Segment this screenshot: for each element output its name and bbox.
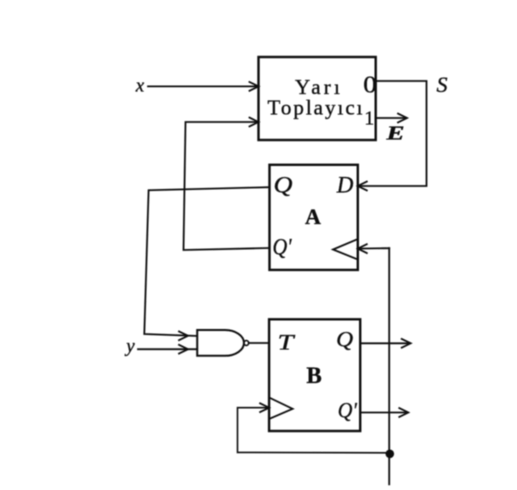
flip-flop B box: [269, 319, 360, 431]
wire NAND output to T input of B: [249, 342, 269, 344]
svg-text:A: A: [305, 204, 321, 229]
svg-text:T: T: [278, 330, 296, 355]
NAND gate G1: [197, 330, 249, 356]
svg-text:Toplayıcı: Toplayıcı: [267, 96, 364, 120]
svg-text:Q': Q': [273, 235, 293, 260]
arrowhead into NAND bottom input: [179, 345, 188, 354]
wire S: half adder output 0 down to D input: [358, 81, 427, 186]
wire x to half adder: [148, 85, 259, 87]
svg-text:0: 0: [363, 73, 377, 99]
arrowhead into half adder top input: [250, 82, 259, 91]
svg-text:B: B: [306, 363, 321, 388]
feedback wire to flip-flop B clock: [238, 408, 390, 453]
svg-text:E: E: [385, 123, 404, 145]
clock triangle of flip-flop B: [269, 398, 293, 420]
wire Q' output of B: [360, 412, 406, 414]
svg-text:Q: Q: [336, 327, 353, 352]
arrowhead into NAND top input: [179, 331, 188, 340]
wire Q of A to NAND input: [144, 187, 269, 336]
junction dot: [386, 450, 395, 459]
wire y to NAND input: [138, 348, 197, 350]
svg-text:y: y: [124, 336, 135, 357]
clock triangle of flip-flop A: [333, 239, 358, 260]
arrowhead into A clock: [358, 244, 367, 253]
half adder box U1 "Yarı Toplayıcı": [259, 57, 376, 140]
arrowhead into half adder lower input: [250, 118, 259, 127]
wire clock to flip-flop A: [358, 247, 389, 249]
svg-text:D: D: [336, 173, 354, 198]
svg-text:Q': Q': [338, 398, 357, 423]
wire E: half adder output 1: [376, 117, 405, 119]
svg-text:Q: Q: [274, 173, 293, 198]
svg-text:S: S: [437, 72, 448, 97]
arrowhead Q output of B: [402, 339, 411, 348]
wire Q' feedback to half adder lower input: [184, 122, 270, 250]
svg-text:1: 1: [364, 107, 374, 129]
clock bus vertical wire: [388, 248, 390, 484]
wire Q output of B: [360, 342, 409, 344]
svg-text:x: x: [135, 76, 145, 97]
arrowhead output E: [398, 114, 407, 123]
arrowhead Q' output of B: [399, 408, 408, 417]
flip-flop A box: [270, 165, 358, 270]
arrowhead into D input: [358, 182, 367, 191]
arrowhead into B clock: [260, 403, 269, 412]
